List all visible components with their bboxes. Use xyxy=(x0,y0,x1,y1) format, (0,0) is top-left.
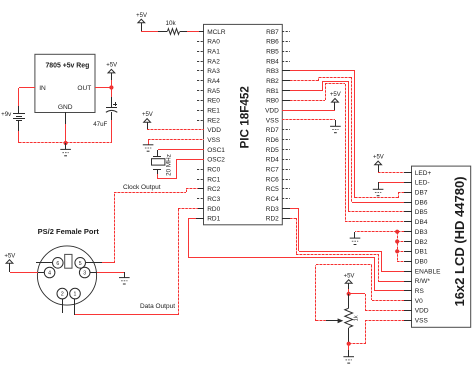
wire J1 pin 5 clock to U1 RC2 xyxy=(86,189,204,264)
svg-text:Clock Output: Clock Output xyxy=(123,184,161,191)
U1 unconnected left pin stubs xyxy=(197,42,204,199)
wire U1 VDD right to +5V xyxy=(282,110,335,112)
svg-text:VSS: VSS xyxy=(207,137,221,144)
svg-text:+5V: +5V xyxy=(330,92,341,98)
wire J1 pin 3 to ground xyxy=(90,272,125,278)
wire U1 RD2 to U3 R/W* xyxy=(282,218,412,282)
svg-text:VSS: VSS xyxy=(415,318,429,325)
U1 unconnected right pin stubs xyxy=(282,32,290,199)
ground xyxy=(60,143,71,156)
wire pot bottom ground to U3 VSS xyxy=(349,320,412,344)
svg-text:RC2: RC2 xyxy=(207,186,220,193)
svg-text:7805 +5v Reg: 7805 +5v Reg xyxy=(45,62,89,69)
svg-text:3: 3 xyxy=(83,271,86,277)
svg-text:PIC 18F452: PIC 18F452 xyxy=(239,86,252,149)
svg-text:RE2: RE2 xyxy=(207,117,220,124)
junction ground rail node xyxy=(64,141,68,145)
svg-text:+5V: +5V xyxy=(106,63,117,69)
wire crystal to U1 OSC2 xyxy=(158,159,205,179)
svg-text:RE0: RE0 xyxy=(207,98,220,105)
svg-text:RD7: RD7 xyxy=(266,127,279,134)
svg-text:RB3: RB3 xyxy=(266,68,279,75)
svg-text:RC4: RC4 xyxy=(266,196,279,203)
crystal X1 20 MHz xyxy=(152,154,173,176)
wire pot top +5V to U3 VDD xyxy=(349,294,412,311)
svg-text:LED-: LED- xyxy=(415,180,430,187)
svg-text:V0: V0 xyxy=(415,298,423,305)
wire 7805 GND down to ground rail xyxy=(65,112,67,143)
wire U1 RB0 to U3 DB4 xyxy=(282,84,412,223)
svg-text:DB3: DB3 xyxy=(415,229,428,236)
wire pot wiper to U3 V0 xyxy=(316,265,413,322)
svg-text:DB2: DB2 xyxy=(415,239,428,246)
+5V supply at U1 VDD (right) xyxy=(330,92,341,110)
svg-text:RA1: RA1 xyxy=(207,49,220,56)
svg-text:RD2: RD2 xyxy=(266,216,279,223)
svg-text:RB0: RB0 xyxy=(266,98,279,105)
svg-text:RA3: RA3 xyxy=(207,68,220,75)
battery B1 +9v xyxy=(1,106,25,131)
svg-text:1k: 1k xyxy=(354,315,360,321)
ground xyxy=(343,357,354,363)
svg-text:DB7: DB7 xyxy=(415,190,428,197)
+5V supply for MCLR pull-up xyxy=(136,13,147,32)
svg-text:VDD: VDD xyxy=(207,127,221,134)
wire +5V to resistor R1 xyxy=(141,31,158,33)
+5V supply at regulator output xyxy=(106,63,117,88)
svg-text:RD4: RD4 xyxy=(266,157,279,164)
svg-text:RE1: RE1 xyxy=(207,108,220,115)
junction bus at DB2 xyxy=(395,239,399,243)
svg-text:RD3: RD3 xyxy=(266,206,279,213)
wire DB3-DB0 bus vertical xyxy=(397,232,399,261)
svg-text:IN: IN xyxy=(39,85,46,92)
+5V supply at U3 LED+ xyxy=(373,155,384,172)
svg-text:RB5: RB5 xyxy=(266,49,279,56)
svg-text:RC5: RC5 xyxy=(266,186,279,193)
junction OUT / +5V / C1 node xyxy=(109,85,113,89)
svg-text:RC1: RC1 xyxy=(207,176,220,183)
U1 right pin labels xyxy=(265,29,279,223)
svg-text:ENABLE: ENABLE xyxy=(415,268,441,275)
wire U1 RD3 to U3 ENABLE xyxy=(282,208,412,272)
ground xyxy=(330,126,341,132)
svg-text:RB6: RB6 xyxy=(266,39,279,46)
+5V supply at J1 pin 4 xyxy=(4,253,15,272)
U1 left pin labels xyxy=(207,29,226,223)
wire +5V to U1 VDD pin 11 xyxy=(147,129,204,131)
wire U1 RB3 to U3 DB7 xyxy=(282,71,412,199)
svg-text:+5V: +5V xyxy=(373,155,384,161)
svg-text:VDD: VDD xyxy=(415,308,429,315)
svg-text:RC0: RC0 xyxy=(207,167,220,174)
J1 pin 5 xyxy=(75,258,86,269)
junction pot top node xyxy=(347,292,351,296)
svg-text:2: 2 xyxy=(61,292,64,298)
U3 pin labels xyxy=(415,170,441,325)
wire bus to U3 DB0 xyxy=(397,261,412,263)
svg-text:PS/2 Female Port: PS/2 Female Port xyxy=(38,227,100,236)
svg-text:OSC1: OSC1 xyxy=(207,147,225,154)
microcontroller U1 PIC 18F452 xyxy=(204,24,283,224)
+5V supply at contrast pot xyxy=(344,273,355,294)
wire R1 to U1 MCLR pin 1 xyxy=(187,31,204,33)
svg-text:47uF: 47uF xyxy=(93,121,107,128)
svg-text:RD0: RD0 xyxy=(207,206,220,213)
svg-text:RA4: RA4 xyxy=(207,78,220,85)
svg-text:R/W*: R/W* xyxy=(415,278,431,285)
wire U1 OSC1 to crystal xyxy=(158,150,205,157)
svg-text:MCLR: MCLR xyxy=(207,29,226,36)
svg-text:RA2: RA2 xyxy=(207,58,220,65)
svg-text:DB1: DB1 xyxy=(415,249,428,256)
R2 wiper arrow xyxy=(326,318,343,323)
wire +5V to J1 pin 4 xyxy=(10,272,44,274)
svg-text:16x2 LCD (HD 44780): 16x2 LCD (HD 44780) xyxy=(452,176,467,306)
connector J1 PS/2 Female Port xyxy=(37,227,99,305)
J1 pin 4 xyxy=(44,267,55,278)
ground xyxy=(350,238,361,244)
wire U3 DB3 to ground (bus) xyxy=(355,232,413,239)
J1 pin 2 stub (n/c) xyxy=(62,299,64,313)
wire U1 RD1 to U3 RS xyxy=(188,218,412,291)
junction pot bottom node xyxy=(347,342,351,346)
voltage regulator U1 7805 xyxy=(35,54,95,112)
svg-text:+5V: +5V xyxy=(4,253,15,259)
svg-text:20 MHz: 20 MHz xyxy=(165,154,172,176)
+5V supply at U1 VDD (left) xyxy=(142,112,153,130)
J1 pin 3 xyxy=(79,267,90,278)
svg-text:VDD: VDD xyxy=(265,108,279,115)
svg-text:RC6: RC6 xyxy=(266,176,279,183)
J1 pin 6 xyxy=(53,258,64,269)
wire bus to U3 DB1 xyxy=(397,251,412,253)
svg-text:DB5: DB5 xyxy=(415,209,428,216)
svg-text:5: 5 xyxy=(79,261,82,267)
svg-text:+5V: +5V xyxy=(136,13,147,19)
wire U1 VSS right to ground xyxy=(282,120,336,127)
svg-text:OSC2: OSC2 xyxy=(207,157,225,164)
wire 7805 OUT to +5V node xyxy=(95,87,111,89)
svg-text:VSS: VSS xyxy=(266,117,280,124)
svg-text:1: 1 xyxy=(74,292,77,298)
wire U1 RB1 to U3 DB5 xyxy=(282,81,412,212)
svg-text:RS: RS xyxy=(415,288,425,295)
resistor R1 10k xyxy=(158,20,187,34)
svg-text:RA5: RA5 xyxy=(207,88,220,95)
svg-text:DB6: DB6 xyxy=(415,199,428,206)
svg-text:RB1: RB1 xyxy=(266,88,279,95)
J1 pin 6 stub (n/c) xyxy=(36,262,52,264)
wire ground rail to capacitor xyxy=(66,142,111,144)
wire U1 RB2 to U3 DB6 xyxy=(282,77,412,203)
wire J1 pin 1 data to U1 RD0 xyxy=(75,208,205,315)
svg-text:6: 6 xyxy=(56,261,59,267)
svg-text:RB2: RB2 xyxy=(266,78,279,85)
ground xyxy=(143,145,154,151)
junction bus at DB1 xyxy=(395,249,399,253)
svg-text:RD5: RD5 xyxy=(266,147,279,154)
capacitor C1 47uF xyxy=(93,88,117,143)
potentiometer R2 1k xyxy=(345,294,360,342)
wire +5V to U3 LED+ xyxy=(378,172,412,174)
wire U1 VSS pin 12 to ground xyxy=(148,140,204,146)
svg-text:RD6: RD6 xyxy=(266,137,279,144)
wire bus to U3 DB2 xyxy=(397,241,412,243)
svg-text:RB7: RB7 xyxy=(266,29,279,36)
svg-text:4: 4 xyxy=(48,271,51,277)
svg-text:+5V: +5V xyxy=(344,273,355,279)
svg-text:RB4: RB4 xyxy=(266,58,279,65)
wire pot bottom to ground xyxy=(348,342,350,357)
wire battery positive to 7805 IN xyxy=(19,88,36,107)
junction bus at DB3 xyxy=(395,230,399,234)
LCD module U3 16x2 LCD (HD 44780) xyxy=(412,166,471,327)
svg-text:RD1: RD1 xyxy=(207,216,220,223)
svg-text:OUT: OUT xyxy=(77,85,91,92)
J1 pin 2 xyxy=(57,288,68,299)
svg-text:GND: GND xyxy=(58,104,73,111)
J1 pin 1 xyxy=(70,288,81,299)
svg-text:Data Output: Data Output xyxy=(140,303,175,310)
svg-text:DB4: DB4 xyxy=(415,219,428,226)
svg-text:RC7: RC7 xyxy=(266,167,279,174)
svg-text:RC3: RC3 xyxy=(207,196,220,203)
svg-text:DB0: DB0 xyxy=(415,259,428,266)
svg-text:LED+: LED+ xyxy=(415,170,432,177)
svg-text:+9v: +9v xyxy=(1,111,12,118)
wire battery negative to ground rail xyxy=(19,131,67,143)
svg-text:+5V: +5V xyxy=(142,112,153,118)
ground xyxy=(119,278,130,284)
svg-text:10k: 10k xyxy=(166,20,177,27)
ground xyxy=(373,189,384,195)
svg-text:RA0: RA0 xyxy=(207,39,220,46)
wire U3 LED- to ground xyxy=(378,182,412,189)
